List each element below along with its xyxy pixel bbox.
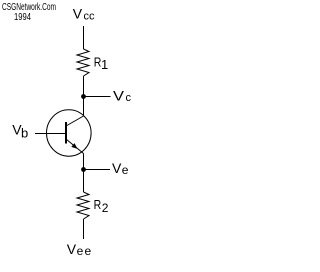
label R2 [94, 197, 109, 215]
wire R2 bottom to Vee [83, 219, 85, 239]
wire Vc stub to label [84, 96, 111, 98]
wire emitter to node Ve [83, 154, 85, 170]
svg-text:cc: cc [84, 11, 96, 23]
svg-text:V: V [112, 160, 122, 176]
label Vee [67, 241, 93, 258]
svg-text:b: b [21, 126, 28, 141]
wire Vcc to R1 top [83, 26, 85, 49]
svg-text:2: 2 [102, 201, 109, 215]
svg-text:1: 1 [101, 57, 108, 72]
node Ve junction dot [81, 167, 86, 172]
svg-text:c: c [126, 92, 132, 104]
svg-text:V: V [73, 6, 83, 22]
svg-text:R: R [94, 197, 102, 212]
wire R1 bottom to node Vc [83, 76, 85, 97]
svg-text:V: V [113, 88, 125, 104]
wire node Ve to R2 top [83, 170, 85, 193]
resistor R1 [77, 49, 89, 76]
resistor R2 [77, 192, 89, 219]
label Vcc [73, 6, 95, 23]
svg-text:ee: ee [77, 244, 93, 258]
transistor body circle [47, 110, 92, 156]
wire node Vc down to collector [83, 97, 85, 117]
transistor Q1 [47, 110, 92, 156]
transistor base bar [65, 122, 67, 144]
svg-text:e: e [122, 163, 129, 177]
label Ve [112, 160, 129, 177]
collector lead [66, 116, 84, 126]
svg-text:V: V [67, 241, 77, 257]
node Vc junction dot [81, 94, 86, 99]
svg-text:1994: 1994 [14, 11, 31, 23]
label Vc [113, 88, 132, 104]
wire Ve stub to label [84, 169, 111, 171]
label Vb [12, 122, 28, 141]
emitter arrowhead [71, 143, 77, 149]
wire base [35, 133, 65, 135]
emitter lead [66, 139, 84, 154]
label R1 [94, 55, 108, 72]
